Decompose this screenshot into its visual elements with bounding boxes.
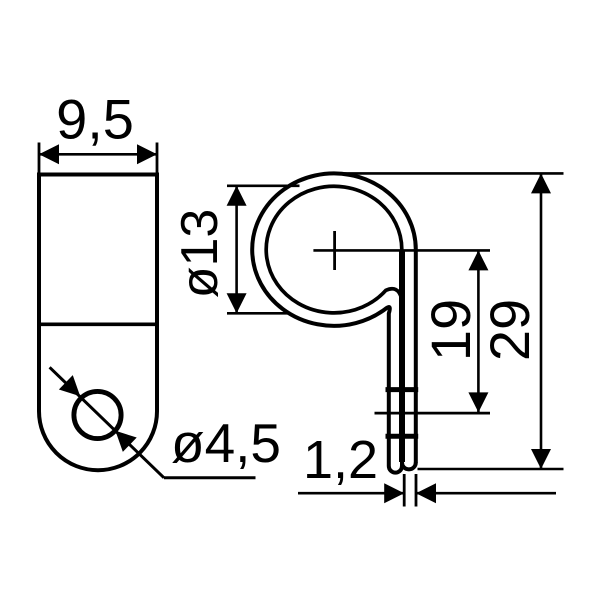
dim 9,5 extension right xyxy=(156,143,159,174)
inner loop arc with knee dive into stem wall xyxy=(266,186,402,313)
right U bottom of stem xyxy=(402,463,416,470)
dim ø13 line xyxy=(235,186,238,313)
mounting hole xyxy=(74,391,121,438)
hole leader underline xyxy=(164,476,256,479)
dim 29 bottom extension xyxy=(418,468,564,471)
dim ø13 arrow top xyxy=(227,186,247,206)
outer loop + stem outer wall + free-end left wall + left U bottom xyxy=(252,173,416,472)
center cross horizontal + 19 top extension xyxy=(313,249,490,252)
dim 19 arrow bottom xyxy=(468,392,488,412)
svg-text:9,5: 9,5 xyxy=(56,88,134,151)
dim 1,2 arrow left xyxy=(384,483,404,503)
dim 9,5 line xyxy=(39,153,157,156)
hole leader arrow lower xyxy=(108,424,136,452)
dim 29 arrow bottom xyxy=(531,449,551,469)
svg-text:ø4,5: ø4,5 xyxy=(171,412,281,474)
dim 19 line xyxy=(477,250,480,412)
hole leader diagonal xyxy=(50,367,164,478)
dim 9,5 arrow right xyxy=(137,144,157,164)
dim ø13 top extension xyxy=(227,185,300,188)
stem inner wall (doubled plies) xyxy=(399,250,405,462)
dim 9,5 arrow left xyxy=(39,144,59,164)
clamp side outline xyxy=(39,175,157,471)
dim 19 bottom extension xyxy=(375,412,491,415)
dim 29 top extension xyxy=(334,172,564,175)
dim 1,2 extension left xyxy=(403,474,406,507)
bend line xyxy=(37,322,159,326)
dim 1,2 extension right xyxy=(415,474,418,507)
stem tick lower xyxy=(386,434,419,439)
center cross vertical xyxy=(333,231,336,270)
svg-text:19: 19 xyxy=(419,299,482,361)
dim 19 arrow top xyxy=(468,250,488,270)
stem tick upper xyxy=(386,387,419,392)
dim ø13 bottom extension xyxy=(227,312,290,315)
dim 29 arrow top xyxy=(531,173,551,193)
dim 9,5 extension left xyxy=(38,143,41,174)
dim 1,2 arrow right xyxy=(416,483,436,503)
dim 29 line xyxy=(540,173,543,469)
dim 1,2 line right segment xyxy=(416,492,556,495)
dim 1,2 line left segment xyxy=(298,492,404,495)
hole leader arrow upper xyxy=(59,375,87,403)
svg-text:1,2: 1,2 xyxy=(303,430,378,490)
svg-text:ø13: ø13 xyxy=(171,209,229,299)
dim ø13 arrow bottom xyxy=(227,293,247,313)
svg-text:29: 29 xyxy=(478,299,541,361)
